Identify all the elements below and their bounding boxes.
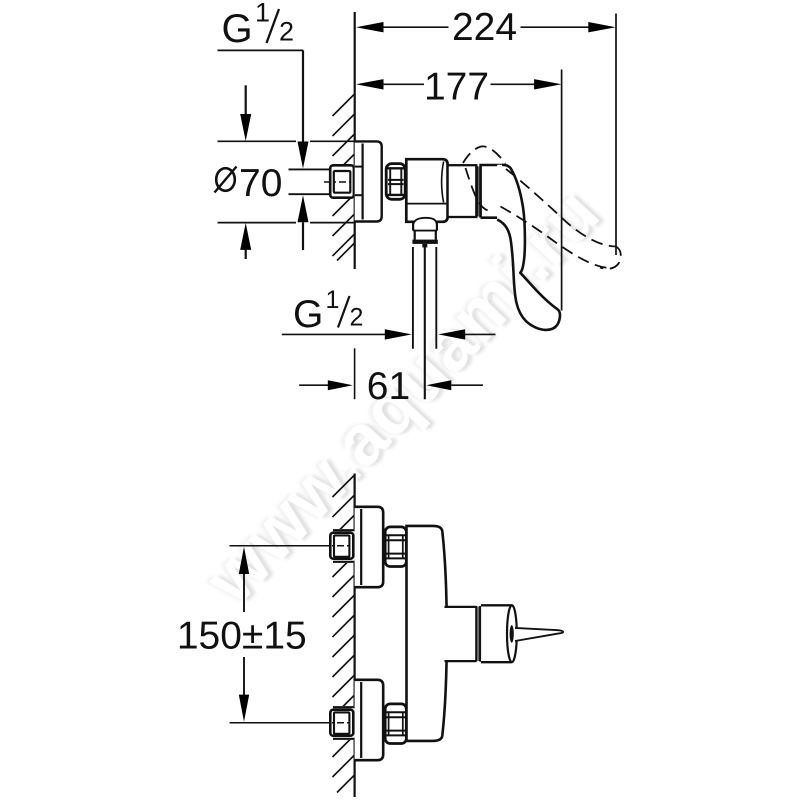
svg-text:224: 224 bbox=[452, 6, 517, 49]
svg-text:177: 177 bbox=[424, 66, 489, 109]
svg-text:70: 70 bbox=[239, 162, 282, 205]
svg-text:1: 1 bbox=[326, 286, 340, 314]
svg-text:G: G bbox=[222, 7, 253, 51]
svg-text:2: 2 bbox=[279, 17, 294, 47]
svg-text:61: 61 bbox=[367, 365, 410, 408]
svg-text:G: G bbox=[293, 293, 323, 336]
svg-text:1: 1 bbox=[255, 0, 270, 28]
svg-text:150±15: 150±15 bbox=[177, 615, 307, 658]
svg-text:2: 2 bbox=[350, 304, 364, 332]
